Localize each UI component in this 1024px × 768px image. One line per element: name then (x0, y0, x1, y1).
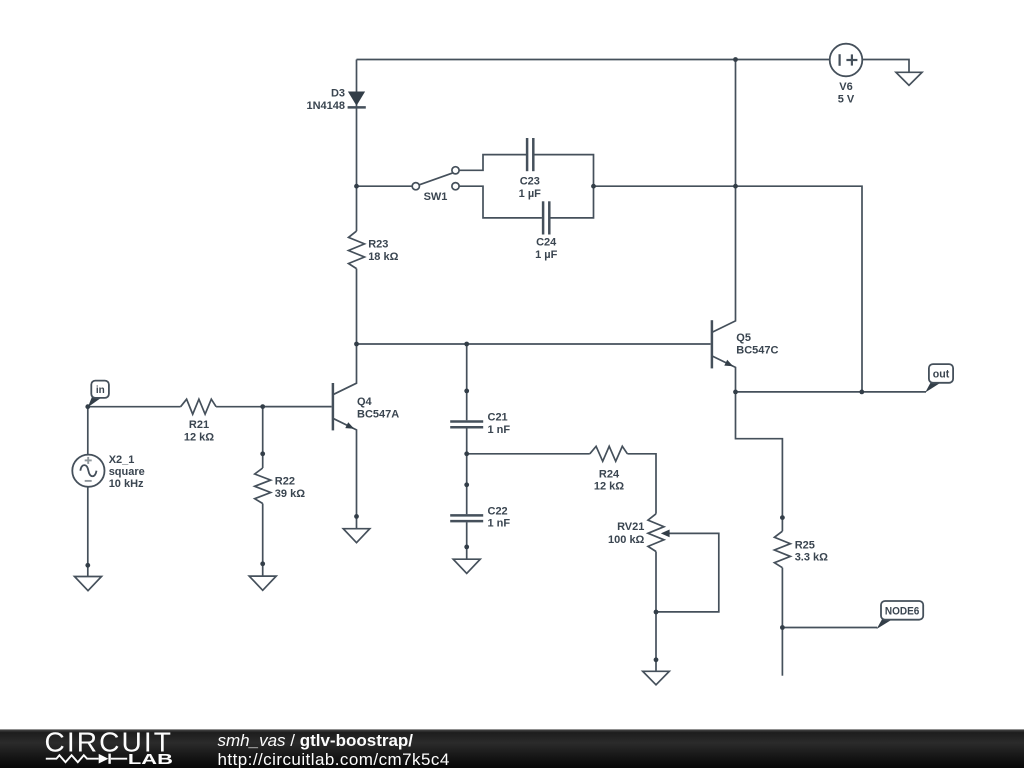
svg-text:R24: R24 (599, 468, 620, 480)
svg-text:1N4148: 1N4148 (306, 100, 345, 112)
svg-text:http://circuitlab.com/cm7k5c4: http://circuitlab.com/cm7k5c4 (218, 750, 450, 768)
svg-text:1 nF: 1 nF (488, 518, 511, 530)
svg-text:SW1: SW1 (424, 191, 448, 203)
svg-text:1 µF: 1 µF (519, 188, 542, 200)
svg-text:NODE6: NODE6 (885, 605, 920, 617)
svg-text:18 kΩ: 18 kΩ (368, 251, 398, 263)
svg-text:5 V: 5 V (838, 94, 855, 106)
svg-text:C23: C23 (520, 176, 540, 188)
svg-text:R22: R22 (275, 476, 295, 488)
svg-text:R23: R23 (368, 239, 388, 251)
svg-text:out: out (933, 368, 950, 380)
svg-text:BC547C: BC547C (736, 345, 778, 357)
svg-text:100 kΩ: 100 kΩ (608, 534, 645, 546)
svg-text:Q5: Q5 (736, 332, 751, 344)
svg-text:C24: C24 (536, 237, 557, 249)
svg-text:BC547A: BC547A (357, 409, 399, 421)
svg-text:39 kΩ: 39 kΩ (275, 488, 305, 500)
svg-text:1 nF: 1 nF (488, 424, 511, 436)
svg-text:smh_vas / gtlv-boostrap/: smh_vas / gtlv-boostrap/ (218, 731, 414, 750)
svg-text:LAB: LAB (128, 752, 173, 768)
svg-text:R25: R25 (795, 539, 815, 551)
svg-text:D3: D3 (331, 88, 345, 100)
svg-text:RV21: RV21 (617, 521, 644, 533)
svg-text:1 µF: 1 µF (535, 249, 558, 261)
svg-text:C21: C21 (488, 412, 508, 424)
svg-text:3.3 kΩ: 3.3 kΩ (795, 552, 828, 564)
svg-text:R21: R21 (189, 419, 209, 431)
svg-text:12 kΩ: 12 kΩ (594, 481, 624, 493)
svg-text:square: square (109, 466, 145, 478)
svg-text:C22: C22 (488, 505, 508, 517)
svg-text:X2_1: X2_1 (109, 454, 135, 466)
svg-text:10 kHz: 10 kHz (109, 478, 144, 490)
svg-text:Q4: Q4 (357, 396, 373, 408)
svg-text:V6: V6 (839, 81, 852, 93)
svg-text:in: in (96, 385, 105, 396)
svg-text:12 kΩ: 12 kΩ (184, 432, 214, 444)
